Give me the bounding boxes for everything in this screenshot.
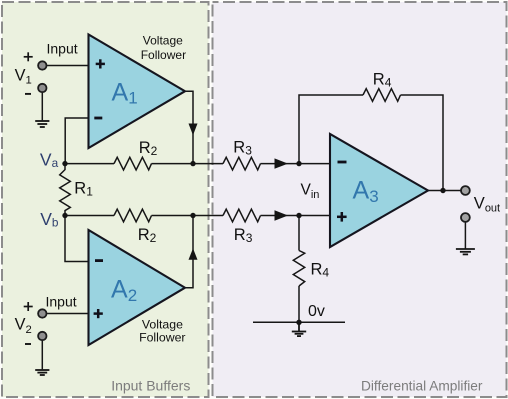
minus sign A3 input [338, 161, 347, 164]
plus sign A1 input [96, 59, 105, 68]
junction output / feedback [440, 188, 445, 193]
ground V2 [35, 370, 49, 375]
resistor R4 feedback zigzag [363, 89, 401, 102]
wire feedback left vertical [299, 95, 363, 164]
ground Vout [456, 249, 475, 254]
svg-text:Input: Input [46, 294, 77, 310]
wire R4 bottom to 0v rail [298, 286, 300, 322]
resistor R3 bottom zigzag [223, 209, 261, 222]
resistor R3 top zigzag [223, 157, 261, 170]
terminal V1 minus [38, 84, 46, 92]
minus sign V2 [25, 343, 31, 345]
wire A2 output up to node [185, 216, 193, 288]
op-amp A2 [89, 230, 186, 345]
junction A3 plus / R4 [296, 213, 301, 218]
wire A1 minus feedback to Va [65, 118, 88, 164]
wire V2 input to A2 plus [42, 313, 88, 315]
wire R2 to R3 top [152, 163, 224, 165]
terminal V2 plus [38, 309, 46, 317]
resistor R4 bottom zigzag [293, 251, 304, 287]
wire Vb to R2 bottom [65, 215, 114, 217]
minus sign A1 input [94, 117, 102, 120]
wire Va to R2 [65, 163, 114, 165]
svg-text:Voltage: Voltage [142, 318, 183, 332]
wire R3 to A3 plus input [261, 215, 331, 217]
wire A2 minus feedback to Vb [65, 216, 89, 262]
svg-text:Differential Amplifier: Differential Amplifier [361, 378, 483, 393]
junction A1 output / R2 [190, 161, 195, 166]
svg-text:Follower: Follower [139, 331, 185, 345]
svg-text:Input Buffers: Input Buffers [111, 378, 190, 394]
terminal V1 plus [38, 61, 46, 69]
plus sign V1 [24, 52, 33, 61]
wire A1 output down to node [185, 91, 193, 163]
ground 0v [292, 322, 306, 336]
label Voltage Follower (A1) [141, 33, 186, 62]
wire 0v rail [253, 321, 345, 323]
arrow A2 output up [189, 248, 198, 259]
op-amp A3 [330, 134, 428, 247]
resistor R2 top zigzag [114, 157, 152, 170]
arrow A1 output down [189, 124, 198, 136]
junction 0v rail [296, 320, 301, 325]
differential amplifier panel [213, 2, 507, 397]
wire R3 to A3 minus input [261, 163, 331, 165]
wire V2 lower terminal to ground [41, 340, 43, 369]
svg-text:0v: 0v [308, 303, 325, 320]
wire Vout lower terminal to ground [464, 222, 466, 249]
minus sign V1 [25, 93, 31, 95]
svg-text:Follower: Follower [141, 48, 186, 62]
resistor R1 zigzag [60, 164, 71, 216]
junction A3 minus / feedback [296, 161, 301, 166]
ground V1 [35, 121, 49, 127]
wire V1 input to A1 plus [42, 65, 88, 67]
minus sign A2 input [95, 259, 103, 262]
wire V1 lower terminal to ground [41, 92, 43, 120]
wire feedback right vertical to output [401, 95, 444, 191]
terminal Vout lower [461, 213, 470, 222]
arrow R3 bottom right [275, 210, 289, 220]
plus sign A3 input [337, 212, 347, 222]
plus sign V2 [24, 302, 33, 311]
wire A3 output to terminal [428, 190, 461, 192]
svg-text:Input: Input [47, 41, 78, 57]
wire R2 to R3 bottom [152, 215, 224, 217]
plus sign A2 input [94, 309, 103, 318]
terminal Vout upper [461, 186, 470, 195]
node Va [62, 161, 67, 166]
op-amp A1 [89, 35, 186, 149]
node Vb [62, 213, 67, 218]
terminal V2 minus [38, 332, 46, 340]
junction A2 output / R2 [190, 213, 195, 218]
svg-text:Voltage: Voltage [143, 33, 183, 47]
label Voltage Follower (A2) [139, 318, 185, 345]
wire node to R4 bottom [298, 216, 300, 251]
resistor R2 bottom zigzag [114, 209, 152, 222]
input buffers panel [2, 2, 209, 397]
arrow R3 top right [275, 158, 289, 168]
